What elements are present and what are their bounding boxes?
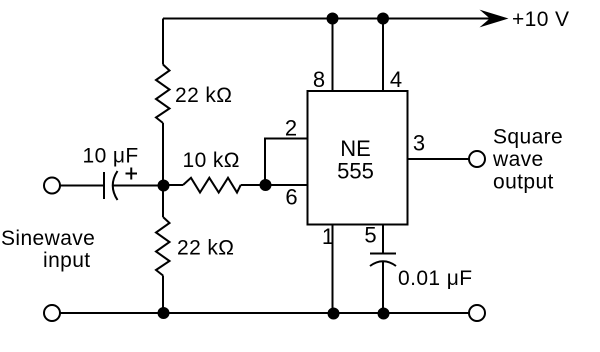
svg-text:+10 V: +10 V — [512, 8, 569, 31]
svg-text:22 kΩ: 22 kΩ — [175, 84, 232, 107]
svg-text:555: 555 — [337, 159, 374, 184]
svg-text:22 kΩ: 22 kΩ — [177, 237, 234, 260]
svg-text:output: output — [493, 171, 554, 194]
svg-text:wave: wave — [492, 148, 544, 171]
svg-text:3: 3 — [413, 131, 425, 156]
svg-text:Square: Square — [493, 126, 563, 149]
svg-text:NE: NE — [340, 136, 371, 161]
svg-text:0.01 μF: 0.01 μF — [398, 267, 472, 290]
svg-text:1: 1 — [322, 224, 334, 249]
svg-text:4: 4 — [390, 67, 402, 92]
svg-text:6: 6 — [285, 185, 297, 210]
svg-text:2: 2 — [285, 116, 297, 141]
svg-text:10 kΩ: 10 kΩ — [183, 149, 240, 172]
svg-text:Sinewave: Sinewave — [1, 227, 95, 250]
svg-text:10 μF: 10 μF — [83, 145, 139, 168]
svg-text:8: 8 — [313, 67, 325, 92]
svg-text:5: 5 — [364, 223, 376, 248]
svg-text:input: input — [43, 249, 91, 272]
